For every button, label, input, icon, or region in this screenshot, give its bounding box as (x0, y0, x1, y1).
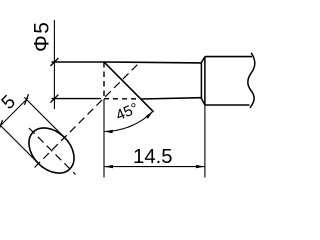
45-degree angle arc (104, 111, 153, 131)
projection centerline (ellipse minor axis to square diagonal) (35, 62, 141, 168)
shank end face (200, 63, 202, 98)
phi5 top extension line (52, 61, 105, 63)
elliptical cut face (auxiliary view) (20, 119, 83, 182)
hidden end-face edge (dashed vertical) (103, 62, 105, 99)
sleeve bottom edge (205, 104, 250, 106)
phi5 oblique tick bottom (50, 95, 58, 103)
5 tick lower (0, 120, 3, 131)
14.5 dimension line (104, 166, 205, 168)
dimension arrow right (196, 165, 205, 168)
dimension arrow left (104, 165, 113, 168)
right extension line (204, 105, 206, 178)
5 lower extension line (0, 124, 43, 168)
svg-text:Φ5: Φ5 (31, 21, 54, 52)
svg-text:14.5: 14.5 (133, 146, 172, 168)
5 dimension line (0, 98, 28, 128)
phi5 dimension line (53, 20, 55, 109)
5 upper extension line (24, 97, 68, 141)
hidden bottom edge (dashed horizontal) (104, 98, 141, 100)
flare top edge (201, 57, 205, 63)
flare bottom edge (201, 98, 205, 105)
left extension line (103, 99, 105, 178)
sleeve end face (204, 57, 206, 105)
phi5 oblique tick top (50, 58, 58, 66)
arc arrowhead right (146, 111, 154, 119)
5 tick upper (25, 94, 29, 105)
tip bottom edge (141, 98, 201, 99)
45-degree cut edge (solid diagonal) (104, 62, 154, 112)
tip top edge (104, 61, 201, 64)
arc arrowhead left (104, 130, 113, 134)
ellipse major-axis centerline (29, 128, 76, 175)
sleeve top edge (205, 56, 252, 58)
phi5 bottom extension line (52, 98, 102, 100)
break line (248, 53, 255, 108)
